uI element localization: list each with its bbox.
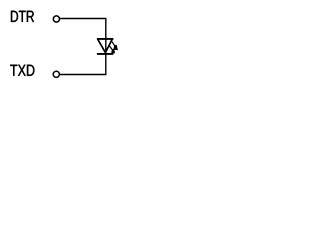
- terminal circle DTR: [53, 16, 59, 22]
- LED emission arrow 2: [109, 45, 115, 53]
- wire vertical anode-cathode: [105, 19, 107, 75]
- LED cathode bar: [97, 53, 114, 55]
- node DTR label: [11, 11, 18, 22]
- node TXD label: [10, 65, 17, 76]
- terminal circle TXD: [53, 71, 59, 77]
- LED D1 triangle left edge: [98, 39, 106, 52]
- wire TXD horizontal: [60, 74, 107, 76]
- LED D1 triangle top bar (anode): [97, 38, 114, 40]
- LED D1 triangle right edge: [105, 39, 112, 52]
- LED emission arrow 1: [112, 42, 118, 51]
- wire DTR horizontal: [60, 18, 107, 20]
